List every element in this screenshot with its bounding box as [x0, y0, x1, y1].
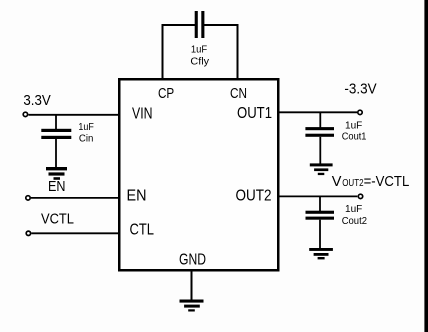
net label VOUT2=-VCTL [332, 174, 410, 190]
svg-text:Cout2: Cout2 [342, 215, 367, 227]
svg-text:Cfly: Cfly [190, 55, 209, 67]
capacitor Cout2 [306, 211, 335, 220]
wire Cin top branch [55, 115, 57, 129]
wire Cout1 bottom branch [319, 137, 321, 164]
svg-text:Cin: Cin [79, 132, 94, 144]
svg-text:Cout1: Cout1 [342, 130, 367, 142]
terminal node EN [26, 196, 30, 200]
svg-text:GND: GND [179, 252, 206, 269]
ground (Cin) [46, 167, 67, 180]
wire Cfly left horizontal [162, 24, 196, 26]
svg-text:3.3V: 3.3V [23, 93, 51, 109]
capacitor Cfly [195, 11, 205, 38]
terminal node 3.3V [23, 112, 27, 116]
ground (Cout2) [309, 248, 333, 259]
terminal node VCTL [26, 231, 30, 235]
svg-text:=-VCTL: =-VCTL [364, 174, 410, 190]
wire CP to Cfly (vertical) [162, 25, 164, 80]
wire VCTL to CTL [31, 232, 119, 234]
svg-text:-3.3V: -3.3V [344, 81, 376, 97]
svg-text:VIN: VIN [132, 106, 153, 123]
wire Cout2 top branch [319, 196, 321, 211]
wire Cfly right horizontal [204, 24, 239, 26]
wire Cout1 top branch [319, 112, 321, 127]
terminal node OUT1 [358, 110, 362, 114]
capacitor Cin [41, 129, 71, 139]
svg-text:OUT2: OUT2 [236, 188, 272, 205]
wire EN input [31, 197, 119, 199]
terminal node OUT2 [358, 194, 362, 198]
svg-text:1uF: 1uF [191, 44, 207, 56]
svg-text:OUT2: OUT2 [342, 177, 364, 189]
svg-text:V: V [332, 174, 342, 190]
ground (GND) [180, 300, 204, 312]
svg-text:CN: CN [230, 86, 247, 102]
svg-text:CP: CP [158, 86, 174, 102]
wire 3.3V to VIN [29, 114, 120, 116]
capacitor Cout1 [305, 127, 334, 137]
wire Cout2 bottom branch [319, 220, 321, 249]
wire OUT1 output [279, 111, 357, 113]
right page border bar [424, 0, 428, 332]
svg-text:1uF: 1uF [345, 203, 362, 215]
svg-text:OUT1: OUT1 [237, 105, 272, 122]
wire CN to Cfly (vertical) [237, 25, 239, 80]
wire Cin bottom branch [55, 139, 57, 168]
svg-text:1uF: 1uF [78, 121, 93, 133]
IC U1 body [119, 79, 278, 270]
svg-text:EN: EN [48, 179, 66, 195]
svg-text:CTL: CTL [130, 222, 155, 239]
svg-text:VCTL: VCTL [41, 212, 74, 228]
wire OUT2 output [279, 195, 357, 197]
svg-text:EN: EN [127, 188, 147, 205]
ground (Cout1) [310, 163, 333, 175]
wire GND down [191, 271, 193, 300]
